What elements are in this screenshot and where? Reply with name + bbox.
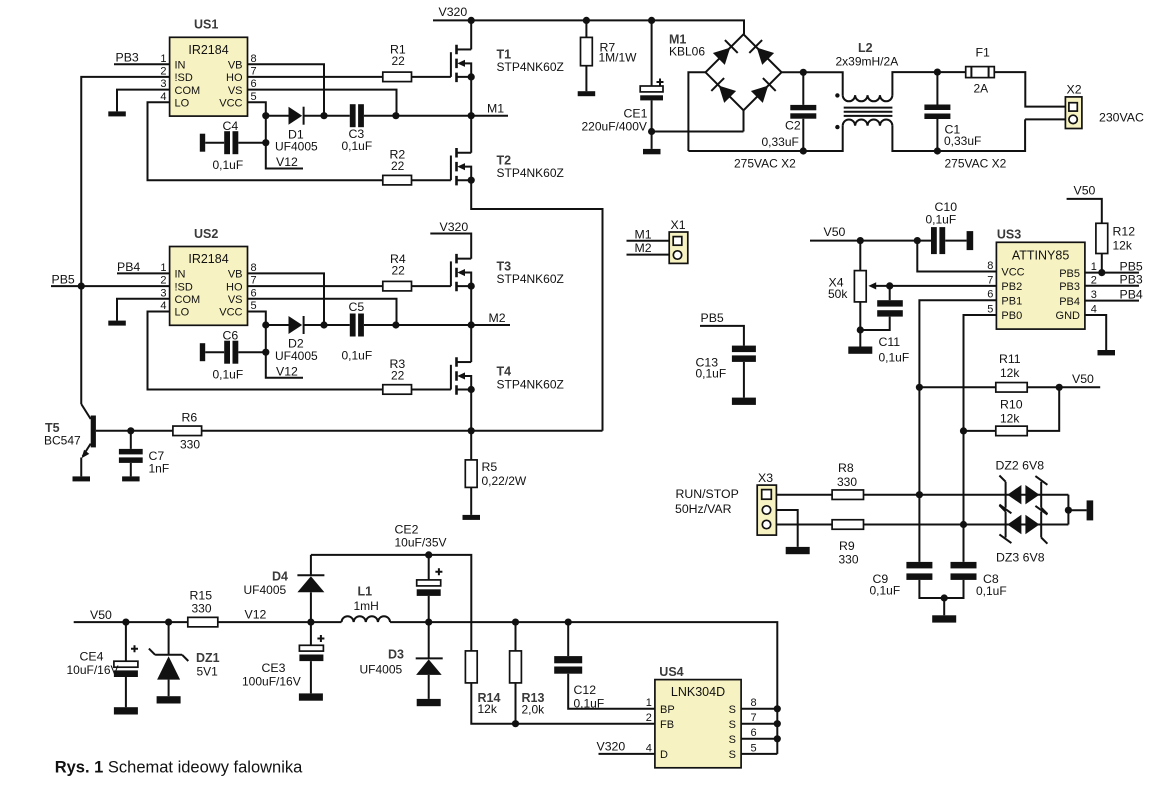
transistor T2 STP4NK60Z xyxy=(451,116,603,431)
svg-text:1M/1W: 1M/1W xyxy=(599,51,638,65)
wire US1 pin3 COM to ground xyxy=(117,90,170,112)
svg-text:Rys. 1 Schemat ideowy falownik: Rys. 1 Schemat ideowy falownika xyxy=(55,759,303,777)
capacitor C1 0,33uF 275VAC X2 xyxy=(924,72,1006,170)
svg-text:12k: 12k xyxy=(1113,239,1133,253)
svg-text:12k: 12k xyxy=(1000,366,1020,380)
wire R1 to T1 gate xyxy=(412,76,451,78)
node V320 top rail xyxy=(433,5,744,34)
svg-text:LO: LO xyxy=(175,307,190,319)
resistor R9 330 xyxy=(832,520,1068,567)
junction wiper/C11 xyxy=(886,282,893,289)
node V50 bottom rail xyxy=(74,608,188,622)
capacitor C3 0,1uF xyxy=(342,104,373,153)
svg-text:6: 6 xyxy=(251,287,257,299)
ground C9/C8 xyxy=(932,615,956,622)
capacitor C7 1nF xyxy=(119,431,169,477)
wire US1 pin7 HO to R1 xyxy=(248,76,383,78)
svg-text:PB3: PB3 xyxy=(1120,273,1143,287)
junction VS/M2 xyxy=(392,321,399,328)
connector X1 xyxy=(669,218,688,264)
svg-text:VS: VS xyxy=(228,294,243,306)
wire M1 line xyxy=(266,115,508,117)
svg-text:UF4005: UF4005 xyxy=(360,662,403,676)
junction VCC/D1 xyxy=(262,112,269,119)
junction V50/C10-VCC xyxy=(914,237,921,244)
svg-text:R11: R11 xyxy=(999,352,1021,366)
junction R5 / T4 source line xyxy=(468,427,475,434)
wire bottom rail to X2 pin2 xyxy=(937,119,1065,151)
svg-text:R5: R5 xyxy=(482,460,498,474)
svg-text:STP4NK60Z: STP4NK60Z xyxy=(497,60,564,74)
junction VS/M1 xyxy=(392,112,399,119)
svg-text:0,1uF: 0,1uF xyxy=(342,349,373,363)
ground C7 xyxy=(122,476,140,481)
svg-text:C11: C11 xyxy=(879,335,901,349)
svg-text:230VAC: 230VAC xyxy=(1099,110,1144,124)
svg-text:VCC: VCC xyxy=(219,307,242,319)
svg-text:S: S xyxy=(729,749,736,761)
svg-text:8: 8 xyxy=(987,260,993,272)
svg-text:3: 3 xyxy=(160,287,166,299)
svg-text:HO: HO xyxy=(226,281,243,293)
op-amp US2 IR2184 driver box xyxy=(160,227,256,325)
resistor R7 1M/1W xyxy=(581,20,638,91)
wire US2 pin4 LO to R3 xyxy=(148,312,383,390)
svg-text:1: 1 xyxy=(160,53,166,65)
svg-text:5V1: 5V1 xyxy=(197,665,219,679)
svg-text:STP4NK60Z: STP4NK60Z xyxy=(497,166,564,180)
junction C2 bottom xyxy=(800,147,807,154)
svg-text:D4: D4 xyxy=(272,569,288,583)
svg-text:R10: R10 xyxy=(1000,397,1023,411)
svg-text:22: 22 xyxy=(391,159,405,173)
svg-text:COM: COM xyxy=(175,294,201,306)
junction VCC/C6 xyxy=(262,349,269,356)
svg-text:8: 8 xyxy=(751,697,757,709)
connector X3 RUN/STOP 50Hz/VAR xyxy=(757,471,776,535)
svg-text:12k: 12k xyxy=(478,702,498,716)
node PB4 right xyxy=(1085,287,1143,301)
svg-text:IR2184: IR2184 xyxy=(188,252,228,266)
svg-text:PB4: PB4 xyxy=(1120,287,1143,301)
wire VCC branch down to US3 pin8 xyxy=(917,241,996,272)
svg-text:0,1uF: 0,1uF xyxy=(870,584,901,598)
svg-text:1nF: 1nF xyxy=(149,462,170,476)
svg-text:220uF/400V: 220uF/400V xyxy=(582,119,647,133)
svg-text:CE3: CE3 xyxy=(262,661,286,675)
resistor R13 2,0k xyxy=(510,622,546,724)
svg-text:V50: V50 xyxy=(824,225,846,239)
svg-text:V12: V12 xyxy=(245,608,267,622)
svg-text:330: 330 xyxy=(837,475,857,489)
ground CE1 xyxy=(643,149,661,154)
svg-text:12k: 12k xyxy=(1000,411,1020,425)
node PB5 xyxy=(51,273,170,287)
svg-text:7: 7 xyxy=(251,66,257,78)
svg-text:F1: F1 xyxy=(976,46,991,60)
svg-text:LO: LO xyxy=(175,98,190,110)
svg-text:GND: GND xyxy=(1056,310,1081,322)
ground T5 emitter xyxy=(73,476,91,481)
svg-text:S: S xyxy=(729,719,736,731)
capacitor CE1 220uF/400V electrolytic xyxy=(582,20,664,133)
wire M2 line xyxy=(266,324,510,326)
svg-text:T3: T3 xyxy=(497,259,512,273)
wire to ground C9/C8 xyxy=(943,598,945,615)
node PB3 right xyxy=(1085,273,1143,287)
wire R4 to T3 gate xyxy=(412,285,451,287)
svg-text:50Hz/VAR: 50Hz/VAR xyxy=(675,502,732,516)
svg-text:US2: US2 xyxy=(194,227,218,241)
svg-text:6: 6 xyxy=(987,289,993,301)
svg-text:R15: R15 xyxy=(190,588,213,602)
capacitor C10 0,1uF with ground stub xyxy=(926,200,974,254)
capacitor C2 0,33uF 275VAC X2 xyxy=(734,72,816,170)
svg-text:PB1: PB1 xyxy=(1001,295,1022,307)
svg-text:275VAC X2: 275VAC X2 xyxy=(734,156,796,170)
junction R11/R10/V50 xyxy=(1056,384,1063,391)
ground R5 xyxy=(463,515,481,520)
svg-text:0,1uF: 0,1uF xyxy=(574,696,605,710)
transistor T4 STP4NK60Z xyxy=(451,325,564,431)
junction VCC/C4 xyxy=(262,139,269,146)
junction V320/R7 xyxy=(583,17,590,24)
junction C12 top xyxy=(565,619,572,626)
svg-text:4: 4 xyxy=(1091,304,1097,316)
diode D2 UF4005 xyxy=(275,316,318,363)
wire DZ2 right to common stub xyxy=(1067,495,1069,511)
junction X4 bottom / C11 xyxy=(857,326,864,333)
svg-text:0,33uF: 0,33uF xyxy=(944,134,981,148)
svg-text:PB2: PB2 xyxy=(1001,281,1022,293)
junction V320/T1 xyxy=(468,17,475,24)
svg-text:S: S xyxy=(729,734,736,746)
wire CE2 top line xyxy=(311,555,471,651)
svg-text:COM: COM xyxy=(175,85,201,97)
svg-text:22: 22 xyxy=(392,263,406,277)
svg-text:X2: X2 xyxy=(1067,83,1082,97)
wire US2 pin3 COM to ground xyxy=(117,299,170,321)
potentiometer X4 50k xyxy=(828,241,996,347)
svg-text:0,22/2W: 0,22/2W xyxy=(482,474,527,488)
svg-text:RUN/STOP: RUN/STOP xyxy=(676,487,739,501)
svg-text:S: S xyxy=(729,704,736,716)
wire US3 pin4 GND to ground xyxy=(1085,315,1106,350)
op-amp US1 IR2184 driver box xyxy=(160,18,256,117)
svg-text:PB4: PB4 xyxy=(1059,296,1080,308)
resistor R4 22 xyxy=(383,252,412,291)
wire V12 line from L1 to US4 S pins riser xyxy=(390,622,777,754)
node PB5 right xyxy=(1085,259,1143,273)
ground R7 xyxy=(578,91,596,96)
svg-text:0,1uF: 0,1uF xyxy=(213,368,244,382)
svg-text:R9: R9 xyxy=(839,539,855,553)
ground US1 COM xyxy=(108,111,126,116)
svg-text:C4: C4 xyxy=(223,119,239,133)
svg-text:ATTINY85: ATTINY85 xyxy=(1012,249,1069,263)
junction PB0/R10 xyxy=(960,427,967,434)
ground US3 xyxy=(1098,350,1116,355)
wire X3 pin2 to ground xyxy=(776,510,797,547)
wire X3 pin1 to R8 xyxy=(776,494,832,496)
junction V12/D4/CE3 xyxy=(307,619,314,626)
svg-text:R12: R12 xyxy=(1113,225,1136,239)
svg-text:V320: V320 xyxy=(597,739,626,753)
svg-text:PB0: PB0 xyxy=(1001,310,1022,322)
resistor R1 22 xyxy=(383,43,412,82)
junction C2 top xyxy=(800,69,807,76)
zener DZ1 5V1 xyxy=(149,622,220,696)
node V320 second rail for T3 xyxy=(430,220,471,259)
terminal bar DZ stub xyxy=(1087,500,1094,520)
svg-text:V320: V320 xyxy=(440,220,469,234)
junction CE2 bottom / D3 xyxy=(425,619,432,626)
svg-text:275VAC X2: 275VAC X2 xyxy=(945,156,1007,170)
svg-text:DZ3 6V8: DZ3 6V8 xyxy=(996,550,1045,564)
ground CE4 xyxy=(114,707,138,714)
wire bridge left vertex AC down to bottom AC rail xyxy=(688,72,705,151)
junction CE1 / minus rail xyxy=(648,128,655,135)
wire US4 S pins to riser xyxy=(741,709,777,754)
svg-text:UF4005: UF4005 xyxy=(275,140,318,154)
diode D4 UF4005 xyxy=(244,555,325,622)
zener DZ3 6V8 bidirectional xyxy=(996,505,1047,564)
ground DZ1 xyxy=(157,696,181,703)
svg-text:2: 2 xyxy=(160,66,166,78)
junction PB5 / T5 collector line xyxy=(78,283,85,290)
svg-text:330: 330 xyxy=(192,601,212,615)
svg-text:PB4: PB4 xyxy=(117,260,140,274)
svg-text:1: 1 xyxy=(160,262,166,274)
resistor R10 12k xyxy=(964,387,1060,435)
wire C1 rail to F1 xyxy=(937,71,965,73)
junction CE2 top xyxy=(425,551,432,558)
junction S6 xyxy=(774,735,781,742)
svg-text:IN: IN xyxy=(175,269,186,281)
svg-text:8: 8 xyxy=(251,262,257,274)
svg-text:STP4NK60Z: STP4NK60Z xyxy=(497,272,564,286)
wire US3 pin6 PB1 long vertical xyxy=(919,300,996,562)
node PB4 xyxy=(117,260,170,274)
junction C1 top xyxy=(934,69,941,76)
svg-text:7: 7 xyxy=(251,275,257,287)
svg-text:V50: V50 xyxy=(1074,184,1096,198)
diode D1 UF4005 xyxy=(275,107,318,154)
junction V50/X4 xyxy=(857,237,864,244)
svg-text:1mH: 1mH xyxy=(354,599,379,613)
wire US1 pin8 VB down to M1 line xyxy=(248,64,325,116)
junction PB1/R11 xyxy=(916,384,923,391)
wire US1 pin4 LO to R2 xyxy=(148,102,383,180)
junction R12 / PB5 line xyxy=(1098,269,1105,276)
svg-text:V12: V12 xyxy=(276,364,298,378)
svg-text:C12: C12 xyxy=(574,683,597,697)
svg-text:DZ1: DZ1 xyxy=(196,651,220,665)
resistor R3 22 xyxy=(383,357,412,394)
node M1 stub to X1 xyxy=(627,227,670,241)
svg-text:PB3: PB3 xyxy=(1059,281,1080,293)
junction C1 bottom xyxy=(934,147,941,154)
zener DZ2 6V8 bidirectional xyxy=(996,459,1048,514)
junction R13 top xyxy=(512,619,519,626)
svg-text:V50: V50 xyxy=(90,608,112,622)
wire DC minus rail to bridge bottom xyxy=(652,110,744,131)
junction S7 xyxy=(774,720,781,727)
svg-text:8: 8 xyxy=(251,53,257,65)
svg-text:PB5: PB5 xyxy=(701,311,724,325)
svg-text:HO: HO xyxy=(226,72,243,84)
wire DZ3 right up to common stub xyxy=(1067,510,1069,524)
node V50 stub to R12 xyxy=(1067,184,1102,224)
resistor R11 12k xyxy=(919,352,1100,392)
inductor L2 2x39mH/2A common-mode choke xyxy=(835,41,937,151)
resistor R5 0,22/2W xyxy=(465,431,527,515)
svg-text:330: 330 xyxy=(180,438,200,452)
wire US1 pin6 VS down to M1 line xyxy=(248,90,397,116)
capacitor C4 0,1uF with ground stub xyxy=(200,119,266,172)
wire R2 to T2 gate xyxy=(412,179,451,181)
op-amp US4 LNK304D box xyxy=(646,665,757,768)
svg-text:2x39mH/2A: 2x39mH/2A xyxy=(836,55,899,69)
junction VCC/D2 xyxy=(262,321,269,328)
junction T1 source / M1 xyxy=(468,112,475,119)
wire CE1 to ground xyxy=(651,132,653,149)
ground US2 COM xyxy=(108,321,126,326)
svg-text:L2: L2 xyxy=(858,41,873,55)
svg-text:FB: FB xyxy=(660,719,674,731)
wire bridge right vertex AC to L2 top xyxy=(782,72,843,95)
wire T5 base line to R6 and main low-side line xyxy=(96,430,173,432)
svg-text:T4: T4 xyxy=(497,365,512,379)
svg-text:US1: US1 xyxy=(194,18,218,32)
svg-text:UF4005: UF4005 xyxy=(244,583,287,597)
capacitor C12 0,1uF xyxy=(554,622,655,710)
svg-text:KBL06: KBL06 xyxy=(669,44,705,58)
svg-text:VCC: VCC xyxy=(219,98,242,110)
capacitor C6 0,1uF with ground stub xyxy=(200,329,266,382)
svg-text:50k: 50k xyxy=(828,287,848,301)
svg-text:C10: C10 xyxy=(935,200,958,214)
svg-text:2A: 2A xyxy=(974,82,989,96)
diode D3 UF4005 xyxy=(360,622,443,699)
wire R3 to T4 gate xyxy=(412,389,451,391)
wire US2 pin6 VS down to M2 line xyxy=(248,299,397,325)
rectifier M1 KBL06 bridge xyxy=(669,33,782,111)
svg-text:5: 5 xyxy=(251,300,257,312)
svg-text:5: 5 xyxy=(751,742,757,754)
ground X3 pin2 xyxy=(786,547,810,554)
svg-text:2: 2 xyxy=(646,712,652,724)
svg-text:D3: D3 xyxy=(388,647,404,661)
node PB5 stub to C13 xyxy=(700,311,744,346)
junction T3 source / M2 xyxy=(468,321,475,328)
ground CE3 xyxy=(299,693,323,700)
node V50 rail to US3 xyxy=(810,225,931,241)
svg-text:PB5: PB5 xyxy=(1120,259,1143,273)
svg-text:7: 7 xyxy=(987,274,993,286)
resistor R8 330 xyxy=(832,461,1068,499)
svg-text:0,1uF: 0,1uF xyxy=(879,351,910,365)
resistor R14 12k xyxy=(465,651,655,724)
fuse F1 2A xyxy=(966,46,995,96)
node V320 stub to US4 D pin xyxy=(597,739,655,754)
wire R6 to x602 riser xyxy=(202,430,603,432)
capacitor CE3 100uF/16V electrolytic xyxy=(242,622,324,693)
svg-text:100uF/16V: 100uF/16V xyxy=(242,674,301,688)
resistor R6 330 xyxy=(173,411,202,452)
svg-text:R8: R8 xyxy=(838,461,854,475)
svg-text:CE4: CE4 xyxy=(80,650,104,664)
capacitor C5 0,1uF xyxy=(342,300,373,363)
svg-text:US4: US4 xyxy=(659,665,683,679)
svg-text:5: 5 xyxy=(987,304,993,316)
resistor R15 330 xyxy=(188,588,218,626)
svg-text:M1: M1 xyxy=(635,227,652,241)
wire US1 pin2 !SD to PB5 vertical xyxy=(81,77,169,286)
svg-text:6: 6 xyxy=(751,727,757,739)
wire US3 pin5 PB0 long vertical xyxy=(964,315,997,562)
svg-text:PB5: PB5 xyxy=(1059,268,1080,280)
svg-text:CE1: CE1 xyxy=(624,106,648,120)
svg-text:10uF/16V: 10uF/16V xyxy=(67,663,119,677)
svg-text:LNK304D: LNK304D xyxy=(671,685,725,699)
svg-text:X1: X1 xyxy=(671,218,686,232)
junction DZ2/DZ3 xyxy=(1065,507,1072,514)
node V12 rail xyxy=(218,608,342,623)
svg-text:V320: V320 xyxy=(439,5,468,19)
capacitor CE4 10uF/16V electrolytic xyxy=(67,622,139,707)
svg-text:1: 1 xyxy=(646,697,652,709)
svg-text:V50: V50 xyxy=(1072,372,1094,386)
wire X3 pin3 to R9 xyxy=(776,524,832,526)
transistor T1 STP4NK60Z xyxy=(451,20,564,115)
wire US1 pin5 VCC down to D1 and C4, V12 stub xyxy=(248,102,304,168)
svg-text:R6: R6 xyxy=(182,411,198,425)
svg-text:BP: BP xyxy=(660,704,675,716)
svg-text:0,1uF: 0,1uF xyxy=(696,366,727,380)
svg-text:0,33uF: 0,33uF xyxy=(762,135,799,149)
svg-text:3: 3 xyxy=(160,78,166,90)
svg-text:IN: IN xyxy=(175,59,186,71)
svg-text:VCC: VCC xyxy=(1001,267,1024,279)
svg-text:M2: M2 xyxy=(635,241,652,255)
svg-text:C5: C5 xyxy=(349,300,365,314)
svg-text:US3: US3 xyxy=(997,227,1021,241)
svg-text:6: 6 xyxy=(251,78,257,90)
svg-text:2: 2 xyxy=(160,275,166,287)
svg-text:4: 4 xyxy=(160,91,166,103)
junction VB/D1 cathode xyxy=(320,112,327,119)
node PB3 xyxy=(114,51,170,65)
capacitor C8 0,1uF xyxy=(944,562,1006,598)
svg-text:VB: VB xyxy=(228,269,243,281)
wire F1 to X2 pin1 xyxy=(994,72,1065,107)
wire to end terminal xyxy=(1068,509,1086,511)
svg-text:M1: M1 xyxy=(487,102,504,116)
ground D3 xyxy=(417,699,441,706)
svg-text:22: 22 xyxy=(392,54,406,68)
svg-text:0,1uF: 0,1uF xyxy=(976,584,1007,598)
svg-text:0,1uF: 0,1uF xyxy=(926,213,957,227)
svg-text:UF4005: UF4005 xyxy=(275,349,318,363)
capacitor CE2 10uF/35V electrolytic xyxy=(395,523,447,622)
svg-text:IR2184: IR2184 xyxy=(188,43,228,57)
junction VB/D2 cathode xyxy=(320,321,327,328)
junction C9/C8 ground stub xyxy=(941,594,948,601)
svg-text:X3: X3 xyxy=(758,471,773,485)
transistor T5 BC547 xyxy=(44,286,96,476)
svg-text:M2: M2 xyxy=(489,311,506,325)
